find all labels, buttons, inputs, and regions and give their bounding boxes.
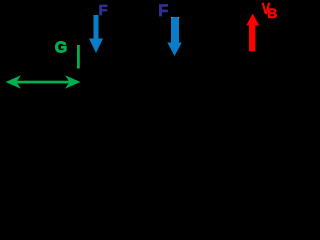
svg-text:B: B: [267, 5, 277, 21]
green double-headed horizontal arrow (span): [6, 75, 81, 89]
force arrow F1 (blue, pointing down): [89, 15, 103, 53]
teal artifact dots on F2 shaft corners: [171, 17, 172, 18]
buoyancy arrow Vb (red, pointing up): [246, 14, 259, 52]
svg-text:F: F: [158, 2, 168, 20]
svg-text:F: F: [99, 2, 108, 19]
force arrow F2 (blue, pointing down): [167, 17, 182, 56]
svg-text:G: G: [55, 40, 67, 57]
green vertical reference line below G: [77, 45, 80, 69]
